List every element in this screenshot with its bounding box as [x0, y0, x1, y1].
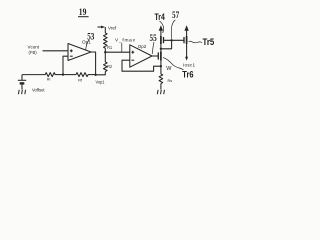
transistor Tr4 gate bar — [163, 37, 165, 43]
transistor Tr6 channel — [160, 52, 162, 61]
op-amp Op2 minus sign — [131, 59, 134, 61]
label R2 — [107, 64, 112, 69]
op-amp Op1 minus sign — [70, 55, 73, 57]
svg-text:Tr4: Tr4 — [155, 12, 165, 22]
svg-text:55: 55 — [150, 33, 157, 44]
wire gate rail — [164, 39, 185, 41]
wire Rf to output rail — [88, 74, 96, 76]
battery Voffset plates — [18, 79, 26, 81]
svg-text:Ri: Ri — [47, 77, 51, 81]
svg-text:Tr6: Tr6 — [182, 69, 193, 80]
label R1 — [107, 45, 112, 50]
label Tr5 — [203, 37, 215, 48]
wire R2 to Vop1 node — [96, 72, 106, 75]
wire op2 feedback — [122, 60, 161, 71]
transistor Tr5 gate bar — [183, 37, 185, 43]
wire op1 output — [91, 52, 96, 75]
node junction gate rail — [170, 39, 172, 41]
op-amp Op1 plus sign — [70, 49, 73, 52]
resistor Rf — [76, 73, 88, 77]
transistor Tr6 gate bar — [157, 52, 159, 59]
label Rf — [78, 79, 83, 83]
label Rs — [168, 79, 173, 83]
supply arrow above Tr4 — [160, 27, 162, 36]
resistor Ri — [44, 73, 56, 77]
terminal Vref arrow — [98, 26, 102, 28]
svg-text:Rf: Rf — [78, 79, 83, 83]
ground (left) — [18, 90, 25, 94]
leader for 55 — [152, 42, 154, 54]
underline of 19 — [78, 16, 89, 18]
node Vcont (FB) label — [28, 45, 40, 55]
label Iosc1 — [183, 62, 195, 67]
ground (right) — [157, 90, 164, 94]
resistor Rs — [159, 74, 163, 84]
svg-text:Tr5: Tr5 — [203, 37, 215, 48]
wire Tr5 drain with Iosc1 arrow — [186, 44, 188, 57]
label Voffset — [32, 87, 45, 92]
wire Tr6 source down — [160, 61, 162, 75]
label Vref — [108, 25, 117, 30]
op-amp Op2 — [130, 45, 152, 67]
svg-text:Vref: Vref — [108, 25, 117, 30]
svg-text:R2: R2 — [107, 64, 112, 69]
op-amp Op1 — [68, 44, 91, 61]
node label W — [166, 66, 172, 72]
label 53 — [87, 31, 94, 42]
svg-text:V_fmax: V_fmax — [115, 37, 136, 43]
leader for 53 — [86, 40, 89, 50]
node junction V_fmax — [104, 51, 106, 53]
leader for Tr5 — [189, 41, 202, 43]
svg-text:Op2: Op2 — [138, 44, 147, 49]
leader for Tr4 — [160, 21, 164, 33]
label V_fmax — [115, 37, 136, 43]
resistor R2 — [104, 62, 108, 72]
supply arrow above Tr5 — [186, 27, 188, 36]
wire op2 output to Tr6 gate — [152, 55, 158, 57]
svg-text:Iosc1: Iosc1 — [183, 62, 195, 67]
wire node to Rf — [63, 74, 76, 76]
label Tr6 — [182, 69, 193, 80]
transistor Tr5 channel — [186, 36, 188, 44]
op-amp Op2 plus sign — [131, 51, 134, 54]
label Op1 — [82, 39, 91, 44]
svg-text:W: W — [166, 66, 172, 72]
node junction Tr6 source — [160, 65, 162, 67]
wire battery to ground — [21, 85, 23, 90]
transistor Tr4 channel — [160, 36, 162, 44]
wire gate-drain tie — [161, 40, 172, 49]
wire Ri to node — [56, 74, 63, 76]
label 57 — [172, 10, 179, 21]
battery Voffset lead — [21, 75, 23, 81]
label Tr4 — [155, 12, 165, 22]
svg-text:R1: R1 — [107, 45, 112, 50]
wire V_fmax to op2 — [105, 51, 130, 53]
svg-text:57: 57 — [172, 10, 179, 21]
node junction minus input — [62, 73, 64, 75]
wire Vref down — [104, 27, 106, 33]
wire op1 minus input — [63, 56, 68, 74]
label Ri — [47, 77, 51, 81]
figure number 19 — [79, 7, 87, 17]
wire Rs to ground — [160, 84, 162, 90]
wire R1 to R2 — [104, 50, 106, 62]
svg-text:Voffset: Voffset — [32, 87, 45, 92]
wire Tr6 drain rail up — [160, 44, 162, 52]
resistor R1 — [104, 33, 108, 50]
leader for 57 — [171, 20, 175, 39]
label 55 — [150, 33, 157, 44]
label Vop1 — [96, 80, 105, 85]
label Op2 — [138, 44, 147, 49]
svg-text:Rs: Rs — [168, 79, 173, 83]
wire left rail to Ri — [22, 74, 44, 76]
svg-text:Vop1: Vop1 — [96, 80, 105, 85]
svg-text:(FB): (FB) — [29, 50, 38, 55]
node junction drain tie — [160, 48, 162, 50]
leader V_fmax — [121, 43, 123, 52]
node junction Vop1 — [94, 74, 96, 76]
wire Vcont to op-amp + input — [43, 50, 69, 52]
leader for Tr6 — [163, 58, 184, 70]
svg-text:19: 19 — [79, 7, 87, 17]
